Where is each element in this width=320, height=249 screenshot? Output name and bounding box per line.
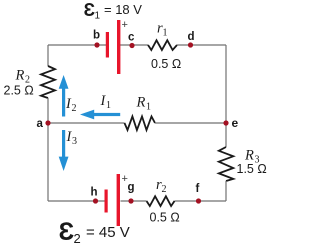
svg-text:e: e [232,116,239,130]
svg-text:= 18 V: = 18 V [104,2,142,17]
current arrow I2 [59,75,69,117]
node e [223,120,228,125]
wire right upper [225,45,227,147]
node a [45,120,50,125]
svg-text:R: R [15,68,25,84]
node g [128,198,133,203]
wire right lower [225,181,227,201]
wire middle a to R1 [48,122,125,124]
node b [94,42,99,47]
svg-text:1: 1 [95,11,101,22]
svg-text:1: 1 [163,28,168,39]
battery E1 positive plate [117,20,120,74]
svg-text:a: a [37,118,44,130]
resistor R1 [125,116,156,130]
resistor r1 [148,40,177,50]
wire middle R1 to e [155,122,226,124]
svg-text:1: 1 [106,100,111,111]
svg-text:0.5 Ω: 0.5 Ω [151,57,181,71]
svg-text:+: + [122,19,128,31]
wire top left segment [48,44,106,46]
wire bottom left segment [48,200,105,202]
svg-text:0.5 Ω: 0.5 Ω [150,211,180,225]
wire top right segment [177,44,226,46]
node c [129,43,134,48]
resistor r2 [147,196,175,206]
svg-text:b: b [93,30,100,42]
battery E2 positive plate [117,174,120,226]
svg-text:c: c [128,32,135,44]
wire left lower [47,98,49,201]
resistor R3 [219,147,234,181]
resistor R2 [41,66,55,98]
node f [196,198,201,203]
svg-text:3: 3 [72,136,77,147]
wire left upper [47,45,49,66]
svg-text:g: g [128,182,135,194]
svg-text:h: h [91,187,98,199]
svg-text:1: 1 [146,102,151,113]
svg-text:1.5 Ω: 1.5 Ω [237,162,267,176]
svg-text:2: 2 [162,184,167,195]
wire bottom right segment [175,200,227,202]
battery E1 negative plate [106,32,109,58]
svg-text:R: R [136,95,146,111]
svg-text:f: f [196,183,200,195]
node d [188,42,193,47]
battery E2 negative plate [105,190,108,213]
svg-text:2: 2 [74,231,81,246]
current arrow I3 [59,130,69,171]
current arrow I1 [80,110,120,120]
svg-text:2: 2 [72,103,77,114]
wire bottom between r2 and battery [121,200,147,202]
svg-text:= 45 V: = 45 V [86,224,130,241]
node h [93,198,98,203]
svg-text:d: d [188,31,195,43]
svg-text:Ɛ: Ɛ [59,218,75,246]
wire top between battery and r1 [120,44,148,46]
svg-text:2.5 Ω: 2.5 Ω [4,84,34,98]
